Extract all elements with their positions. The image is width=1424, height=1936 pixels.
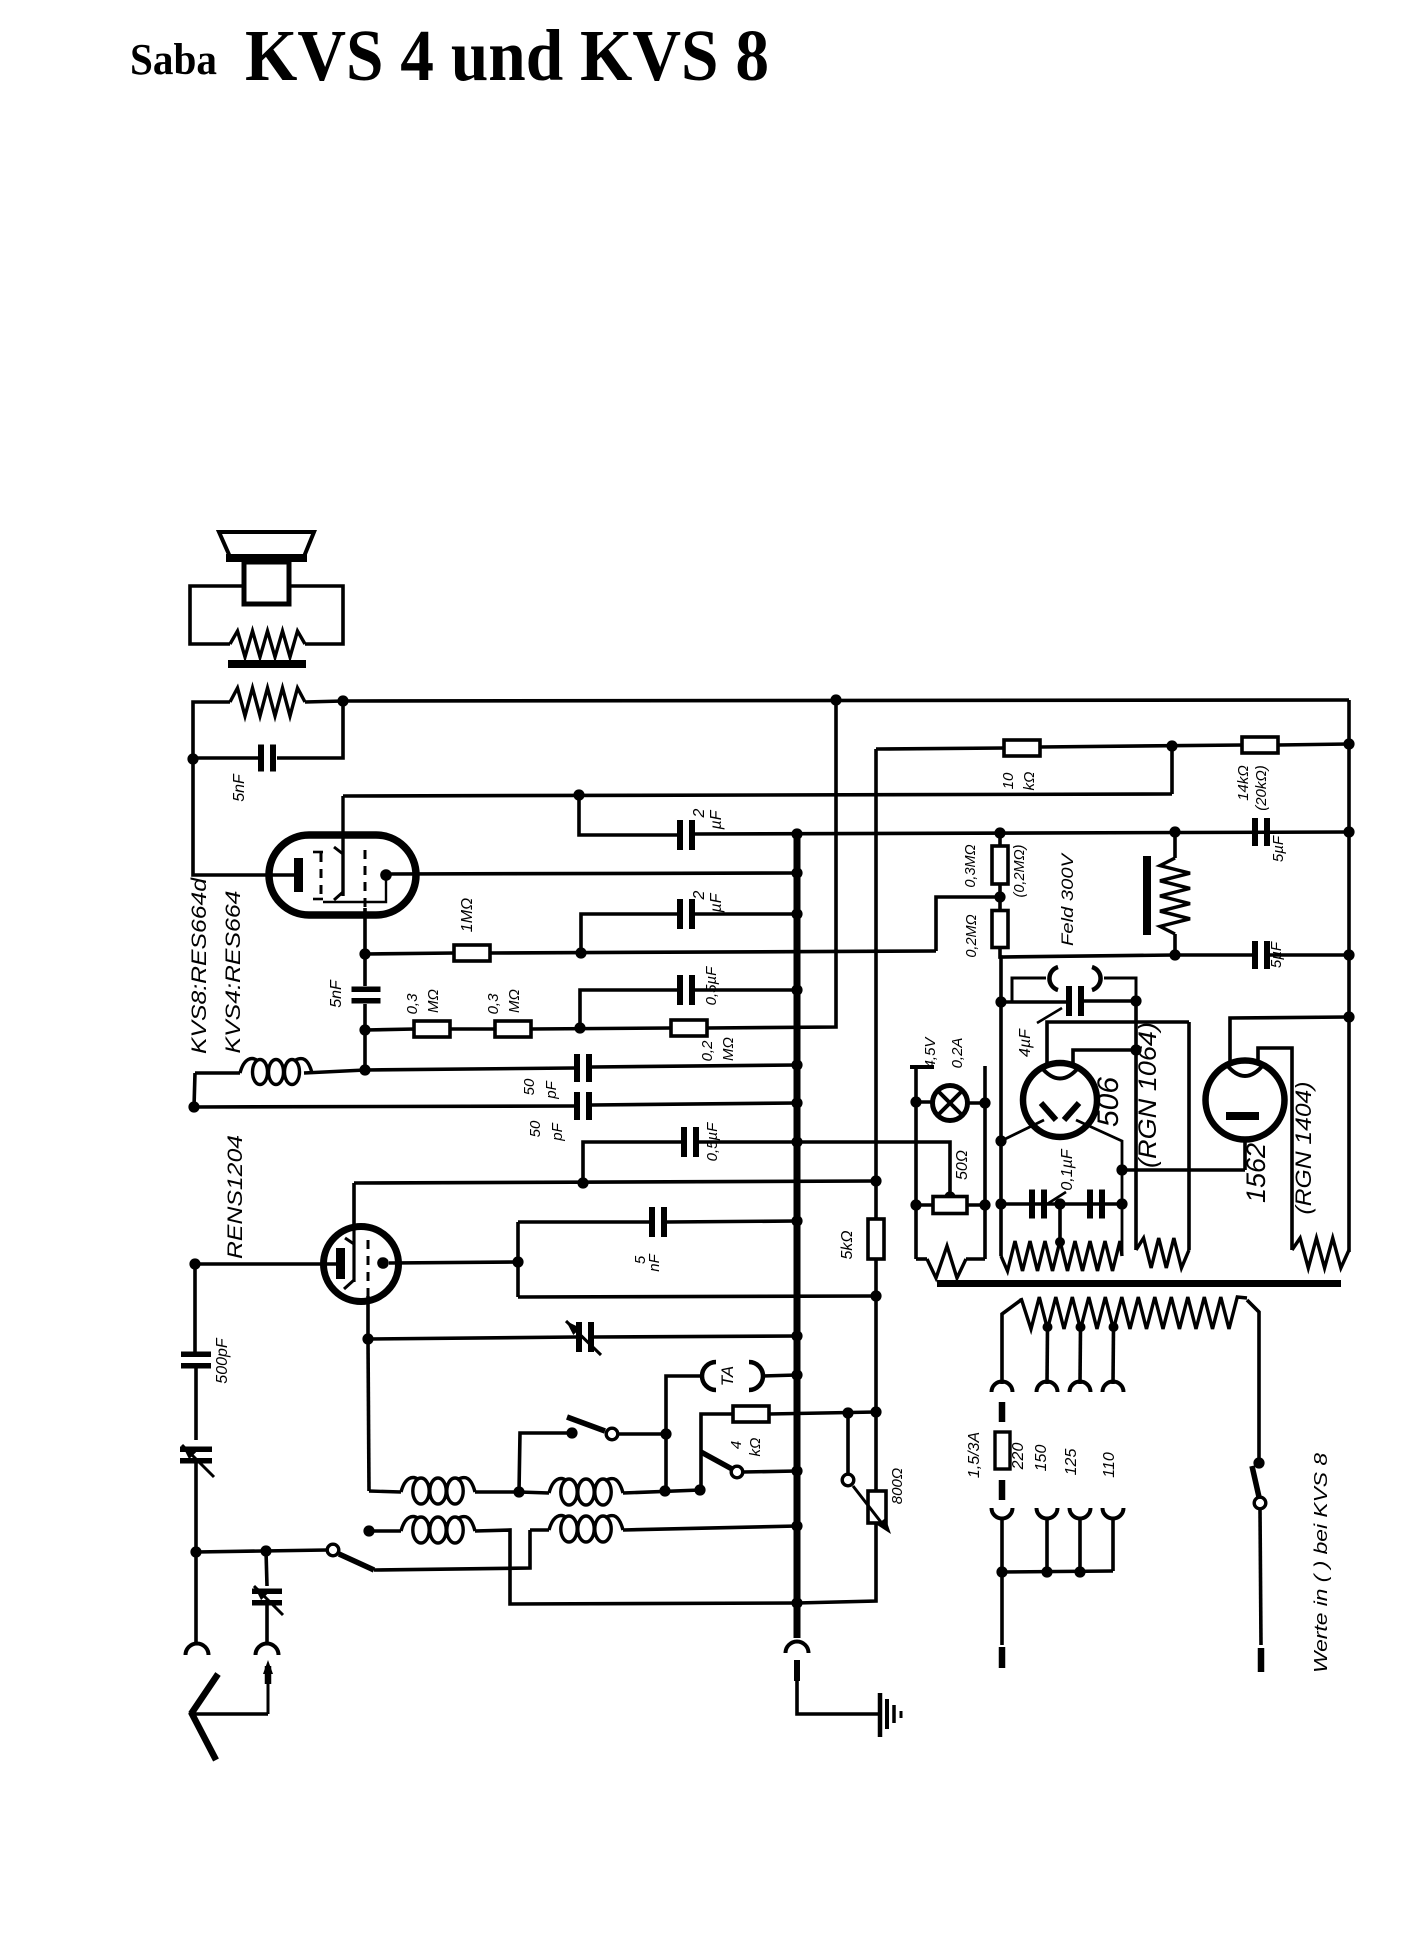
RENS1204 grid dot [377,1257,389,1269]
node junction x1060 y1204 [1054,1198,1065,1209]
lamp rail left [914,1066,918,1259]
winding G3 [1136,1238,1189,1268]
node junction x700 y1490 [694,1484,705,1495]
lamp rail right [983,1066,987,1259]
node junction x193 y759 [187,753,198,764]
node bus y873 [791,867,802,878]
resistor 10k [1004,740,1040,756]
wire 0.1uF row [1001,1202,1122,1206]
wire bus to 50ohm tap [797,1142,950,1197]
capacitor 2uF no2 [677,899,683,929]
wire bottom y1552 [196,1550,327,1552]
right bus vertical [1347,700,1351,1252]
node junction x1060 y1242 [1055,1237,1065,1247]
wire 0.1uF mid tap [1058,1204,1062,1242]
coil A [369,1491,401,1492]
winding G2 [1001,1241,1122,1271]
winding G1 [916,1257,927,1261]
wire 2uF no1 branch [579,795,677,835]
node junction x579 y795 [573,789,584,800]
wire jog x343 to 5nF [277,701,343,758]
node junction x1001 y1002 [995,996,1006,1007]
wire RENS cathode to coil A [368,1339,369,1491]
node junction x836 y700 [830,694,841,705]
svg-text:(20kΩ): (20kΩ) [1253,765,1270,811]
506 filament lead left [1001,1120,1044,1141]
svg-text:KVS8:RES664d: KVS8:RES664d [188,876,211,1054]
1562 filament bar [1226,1112,1259,1120]
svg-text:TA: TA [718,1366,737,1386]
bus socket arc [786,1642,809,1654]
switch 4k lever [701,1452,732,1469]
wire 10k to 14k [1040,745,1243,747]
voice coil resistor zigzag [230,631,305,657]
resistor 4k [733,1406,769,1422]
node junction x368 y1339 [362,1333,373,1344]
wire grid y1182 [354,1181,876,1183]
RF coil choke [195,1071,240,1074]
fuse 1.5/3A [995,1432,1010,1469]
wire 0.5uF no2 through bus to 50ohm tap [698,1140,797,1144]
node junction x985 y1103 [979,1097,990,1108]
antenna symbol [191,1674,218,1714]
capacitor 50pF no2 [574,1092,580,1120]
RENS1204 anode line with serifs [352,1228,355,1282]
transformer core bar [937,1280,1341,1287]
wire y796 from tube top to right jog [344,794,1172,796]
svg-text:506: 506 [1092,1077,1125,1127]
svg-text:1MΩ: 1MΩ [459,898,476,932]
node junction x848 y1413 [842,1407,853,1418]
RES664 grid 1 dashed [313,851,323,854]
svg-text:0,3: 0,3 [485,993,502,1015]
svg-text:5nF: 5nF [231,773,248,802]
coil B [519,1492,549,1493]
node junction x876 y1296 [870,1290,881,1301]
svg-text:5nF: 5nF [328,979,345,1008]
svg-text:0,3: 0,3 [404,993,421,1015]
svg-text:2: 2 [691,808,708,818]
mains switch dot [1253,1457,1264,1468]
wire y1297 to 5k bottom [518,1296,876,1297]
svg-text:Saba: Saba [130,35,217,84]
trimmer arrow [566,1321,601,1355]
RES664 grid 2 dashed exits bottom [364,850,367,908]
node bus top y835 [791,828,802,839]
wire 0.5uF no1 branch [580,990,677,1028]
output transformer core bar [228,660,306,668]
primary left lead [1002,1300,1021,1384]
node junction x581 y953 [575,947,586,958]
node junction x665 y1491 [659,1485,670,1496]
wires 50ohm [916,1203,933,1207]
node junction x1001 y1204 [995,1198,1006,1209]
capacitor 2uF no1 [677,820,683,850]
wire 0.2M to x836 riser [707,700,836,1028]
1562 bottom lead [1243,1140,1247,1170]
svg-text:0,1µF: 0,1µF [1059,1148,1076,1190]
wire 14k to right bus [1278,744,1349,745]
svg-text:KVS4:RES664: KVS4:RES664 [222,891,245,1054]
resistor 5k [868,1219,884,1259]
node junction x194 y1107 [188,1101,199,1112]
node bus y1603 [791,1597,802,1608]
bus plug pin [794,1660,800,1681]
node junction x580 y1029 [574,1022,585,1033]
node junction x1172 y746 [1166,740,1177,751]
switch TA lever [567,1417,605,1431]
wire 5nF to row [363,1004,367,1031]
antenna lead [267,1684,270,1714]
node junction x343 y701 [337,695,348,706]
wire jog up to 0.3M chain [936,897,1000,951]
field coil bottom lead [1173,934,1177,955]
node bus y1526 [791,1520,802,1531]
node junction x365 y1070 [359,1064,370,1075]
selector rail [1000,1517,1004,1572]
fuse pin upper [999,1402,1006,1422]
node junction x1175 y955 [1169,949,1180,960]
svg-text:220: 220 [1010,1443,1027,1471]
RENS1204 cathode bar [336,1248,345,1279]
svg-text:4: 4 [728,1441,745,1449]
wire 5nF left [193,756,258,760]
tube 506 envelope [1023,1063,1097,1137]
resistor 1M [454,945,490,961]
svg-text:0,2A: 0,2A [949,1038,966,1069]
capacitor 5uF no2 [1252,941,1258,969]
antenna trimmer no1 [180,1447,212,1453]
wire jog x1172 to y794 [1170,746,1174,794]
wire 50pF no2 to bus [592,1103,797,1105]
node junction x583 y1183 [577,1177,588,1188]
wire coil A to junction [475,1490,519,1494]
field coil zigzag [1160,858,1190,934]
wire between 0.3M resistors [450,1027,496,1031]
wire coil B right [623,1490,700,1493]
fuse pin lower [999,1480,1006,1500]
switch antenna lever [339,1554,374,1570]
node bus y1471 [791,1465,802,1476]
wire grid2 down to 1M node [363,908,367,954]
TA pickup arcs [702,1362,716,1390]
switch antenna open circle [327,1544,339,1556]
RENS1204 left wire [195,1262,336,1266]
1562 right lead [1258,1048,1292,1250]
resistor 14k [1242,737,1278,753]
svg-text:50: 50 [521,1078,538,1095]
svg-text:14kΩ: 14kΩ [1235,765,1252,801]
rail x1001 top [1000,957,1001,1256]
ground symbol [878,1693,883,1737]
svg-text:pF: pF [543,1080,560,1099]
tube RENS1204 envelope [324,1227,399,1302]
RES664 grid connection dot [380,869,392,881]
svg-text:0,2MΩ: 0,2MΩ [964,914,980,957]
resistor 0.2M vertical [998,884,1002,911]
node bus y914 [791,908,802,919]
primary right lead [1247,1300,1259,1463]
resistor 0.3M no2 [495,1021,531,1037]
wire primary right to node B+ [305,701,343,702]
node junction x519 y1492 [513,1486,524,1497]
wire switch 4k to bus [743,1471,797,1472]
capacitor 50pF no1 [574,1054,580,1082]
svg-text:0,5µF: 0,5µF [703,966,720,1005]
wire 0.3M row [365,1029,415,1030]
mains switch lever [1252,1466,1259,1497]
resistor 0.2M [671,1020,707,1036]
wire chain bottom corner [1000,947,1175,957]
left rail 500pF down [194,1368,198,1440]
loudspeaker magnet [244,562,289,604]
svg-text:Feld 300V: Feld 300V [1058,852,1077,946]
rail x876 bottom [797,1523,876,1603]
node bus y990 [791,984,802,995]
left rail coil corner [194,1073,195,1107]
node junction x916 y1205 [910,1199,921,1210]
node bus y1065 [791,1059,802,1070]
svg-text:KVS 4 und KVS 8: KVS 4 und KVS 8 [245,15,769,96]
wire TA right to bus [762,1375,797,1376]
wire coil D to bus [623,1526,797,1530]
antenna trimmer no2 [252,1589,282,1595]
svg-text:kΩ: kΩ [1021,772,1038,791]
RES664 anode line with serifs [341,796,344,896]
svg-text:50Ω: 50Ω [954,1150,971,1180]
wire RES664 anode to bus [386,873,797,874]
svg-text:500pF: 500pF [214,1337,231,1384]
resistor 50ohm [933,1197,967,1214]
svg-text:800Ω: 800Ω [889,1468,906,1504]
svg-text:50: 50 [527,1120,544,1137]
RENS1204 grid dashed [367,1240,370,1296]
wire switch to coil D riser [374,1530,530,1570]
node junction x572 y1433 [566,1427,577,1438]
wire 2uF no2 to bus [695,912,797,916]
node junction x1136 y1050 [1130,1044,1141,1055]
wire row to 0.2M [531,1028,672,1029]
RES664 internal grid lead [323,880,386,902]
svg-text:1562: 1562 [1241,1143,1271,1203]
svg-text:(0,2MΩ): (0,2MΩ) [1012,845,1028,898]
506 filament lead right [1076,1120,1122,1256]
left rail to bottom node [194,1463,198,1552]
506 anode leads [1047,1022,1189,1064]
field coil top lead [1173,832,1177,858]
wire 50pF no1 [365,1068,574,1070]
node junction x195 y1264 [189,1258,200,1269]
svg-text:4,5V: 4,5V [922,1036,939,1069]
wire RES664 top to y796 [343,794,344,798]
loudspeaker cone [219,532,314,559]
wire cathode to trimmer [368,1337,576,1339]
mains pin right [1260,1509,1261,1645]
rheostat 800ohm wiper [853,1486,884,1526]
svg-text:4µF: 4µF [1017,1028,1034,1057]
wire 5uF no2 to right bus [1270,953,1349,957]
wire 1M right [490,951,936,953]
capacitor 5nF speaker [258,745,264,772]
svg-text:0,3MΩ: 0,3MΩ [963,844,979,887]
resistor 0.3M vertical [998,833,1002,846]
svg-text:Werte in ( ) bei KVS 8: Werte in ( ) bei KVS 8 [1311,1453,1331,1673]
node junction x950 y1197 [944,1191,955,1202]
wire 50pF no2 [194,1106,574,1107]
wire coil C to y1604 [475,1530,797,1604]
svg-text:MΩ: MΩ [425,989,442,1013]
tap 220 dots and leads [1043,1322,1053,1332]
coil C [369,1529,401,1532]
node junction x1349 y832 [1343,826,1354,837]
wire y748 [876,748,1005,749]
node junction x985 y1205 [979,1199,990,1210]
bus lead to ground [797,1681,878,1714]
wire y955 to 5uF no2 [1175,953,1252,957]
left rail to socket [194,1552,198,1643]
node bus y1103 [791,1097,802,1108]
wire HT rail y700 to right bus [343,700,1349,701]
svg-text:2: 2 [691,890,708,900]
node junction x1000 y833 [994,827,1005,838]
capacitor 4uF [1001,1000,1068,1004]
socket arc antenna [256,1644,279,1656]
svg-text:150: 150 [1033,1445,1050,1472]
wire 0.5uF no2 [583,1142,681,1182]
node junction x916 y1102 [910,1096,921,1107]
wire trimmer to bus [594,1336,797,1337]
wire 5nF no2 [518,1220,649,1224]
svg-text:pF: pF [549,1122,566,1141]
wire 2uF no2 branch [581,914,677,953]
node bus y1336 [791,1330,802,1341]
coil D [530,1528,549,1531]
wire 4k to x876 rail [769,1412,876,1414]
wire primary left to rail [193,702,230,759]
rail x876 top corner [874,749,878,1219]
wire RENS cathode down [366,1296,370,1339]
rail x876 middle [874,1259,878,1491]
wire 0.5uF no1 to bus [695,988,797,992]
rail x1136 down to winding G3 [1134,1001,1138,1250]
capacitor 0.1uF no2 [1087,1190,1093,1219]
node junction x1349 y744 [1343,738,1354,749]
mains pin left [1000,1572,1004,1645]
node junction x1000 y897 [994,891,1005,902]
node bus y1221 [791,1215,802,1226]
capacitor 0.1uF no1 [1029,1190,1035,1219]
coil C terminal dot [363,1525,374,1536]
lamp wires [916,1100,933,1104]
voltage cups [992,1508,1013,1519]
svg-text:5kΩ: 5kΩ [839,1230,856,1259]
rail x1189 down to winding G3 [1187,1022,1191,1250]
node junction x1136 y1001 [1130,995,1141,1006]
tube RES664 envelope [269,835,416,915]
wire TA left down [666,1376,703,1491]
node junction x1349 y955 [1343,949,1354,960]
node junction x1175 y832 [1169,826,1180,837]
socket arc left rail [186,1644,209,1656]
output transformer primary zigzag [230,688,305,716]
506 filament strokes [1041,1103,1056,1120]
wire TA switch to coils riser [519,1433,572,1492]
wire 1562 left lead [1230,1017,1349,1062]
resistor 0.3M no1 [414,1021,450,1037]
svg-text:5µF: 5µF [1270,835,1287,862]
trimmer capacitor on cathode wire [576,1322,582,1352]
wire 50pF no1 to bus [592,1065,797,1067]
node bus y1142 [791,1136,802,1147]
wire 2uF no1 to chain [695,832,1349,834]
dial lamp [933,1086,968,1121]
left rail RENS to 500pF [193,1264,197,1352]
antenna plug pin [265,1666,272,1684]
antenna branch down [266,1551,267,1586]
node junction x876 y1412 [870,1406,881,1417]
rheostat 800ohm body [868,1491,886,1523]
svg-text:MΩ: MΩ [506,989,523,1013]
winding G4 [1292,1238,1349,1268]
wire RENS top [352,1183,356,1228]
node junction x365 y954 [359,948,370,959]
node junction x1349 y1017 [1343,1011,1354,1022]
node bus y1375 [791,1369,802,1380]
svg-text:(RGN 1404): (RGN 1404) [1291,1082,1316,1215]
wire TA switch [618,1432,666,1436]
svg-text:kΩ: kΩ [747,1438,764,1457]
switch 800ohm open circle [842,1474,854,1486]
svg-text:MΩ: MΩ [720,1037,737,1061]
node junction x266 y1551 [260,1545,271,1556]
capacitor 5uF no1 [1252,818,1258,846]
svg-text:1,5/3A: 1,5/3A [966,1432,983,1478]
node junction x365 y1030 [359,1024,370,1035]
main chassis bus thick [794,834,801,1638]
node junction x1122 y1170 [1116,1164,1127,1175]
heater winding arcs [1012,978,1046,1002]
node junction x1122 y1204 [1116,1198,1127,1209]
socket arcs upper [992,1382,1013,1393]
svg-text:125: 125 [1063,1449,1080,1476]
node junction x1001 y1141 [995,1135,1006,1146]
svg-text:RENS1204: RENS1204 [224,1135,247,1259]
wire 4k branch [701,1414,733,1490]
capacitor 5nF bias [352,987,381,993]
wire to 1M [365,953,455,954]
node junction x196 y1552 [190,1546,201,1557]
tube 1562 envelope [1206,1061,1285,1140]
wire RENS anode to loop [389,1262,518,1263]
node junction x518 y1262 [512,1256,523,1267]
anode loop vertical [516,1222,520,1297]
switch 4k open circle [731,1466,743,1478]
svg-text:10: 10 [1000,772,1017,789]
output transformer secondary loop [190,586,244,644]
svg-text:µF: µF [708,809,725,830]
RES664 cathode bar [294,858,303,892]
node junction x876 y1181 [870,1175,881,1186]
primary winding zigzag [1021,1297,1247,1329]
field coil core bar [1143,856,1151,935]
lamp rail stub [910,1065,934,1069]
capacitor 5nF no2 [649,1207,655,1237]
capacitor 0.5uF no1 [677,975,683,1005]
mains switch circle [1254,1497,1266,1509]
wire left rail to RES664 cathode [193,759,294,875]
antenna branch to socket [265,1605,269,1643]
wire y1170 filament return [1122,1168,1245,1172]
